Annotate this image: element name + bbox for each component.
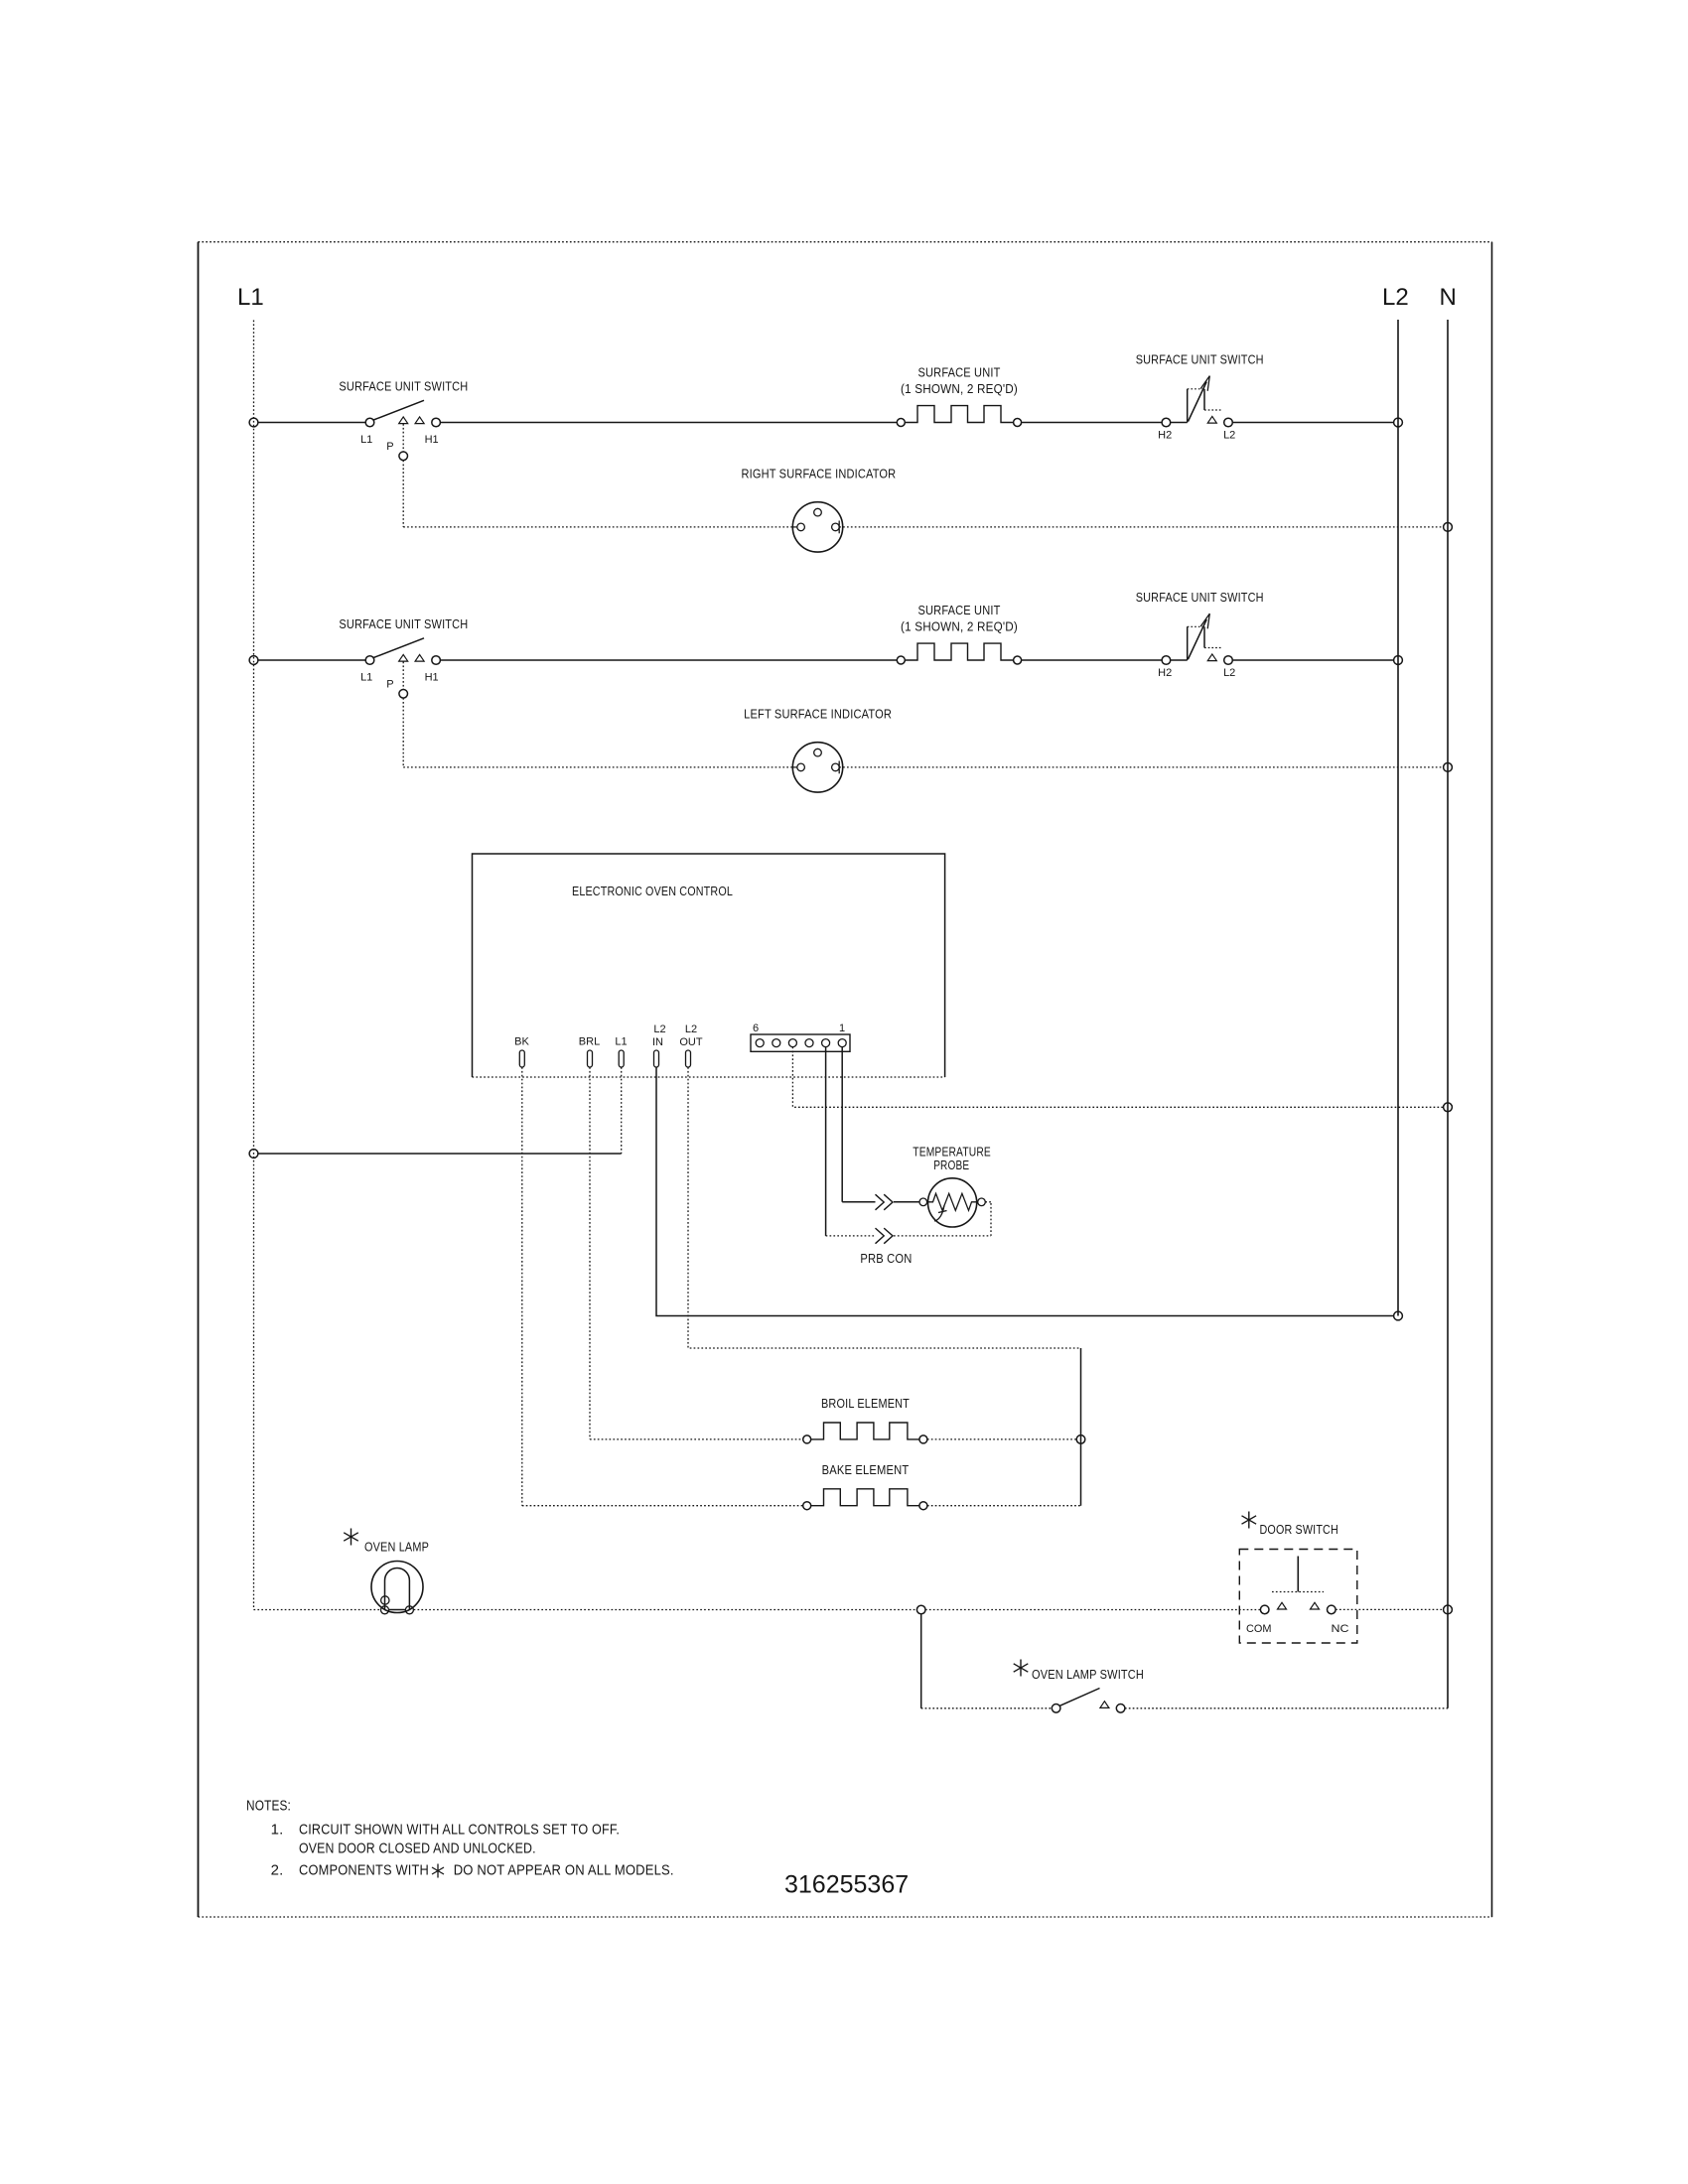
svg-text:6: 6 — [753, 1023, 759, 1034]
asterisk door switch — [1242, 1512, 1257, 1529]
wire lamp switch drop — [920, 1614, 922, 1708]
svg-text:BRL: BRL — [579, 1036, 600, 1048]
svg-text:OVEN LAMP: OVEN LAMP — [364, 1540, 429, 1555]
node L1-row2 terminal — [249, 656, 258, 665]
wire row1 switch-to-resistor — [440, 422, 897, 424]
connector chevron lower — [876, 1228, 894, 1244]
switch S1 door switch — [1239, 1550, 1357, 1644]
wire pilot P row1 — [403, 424, 792, 527]
svg-text:CIRCUIT SHOWN WITH ALL CONTROL: CIRCUIT SHOWN WITH ALL CONTROLS SET TO O… — [299, 1822, 620, 1839]
svg-text:316255367: 316255367 — [784, 1871, 909, 1899]
thermistor RT1 temperature probe — [919, 1178, 985, 1227]
node N-door terminal — [1444, 1605, 1453, 1614]
wire pin2 down — [825, 1047, 827, 1236]
node L1-row1 terminal — [249, 418, 258, 427]
svg-text:IN: IN — [652, 1036, 663, 1048]
svg-text:NC: NC — [1332, 1623, 1349, 1635]
wire lamp switch to N — [1125, 1707, 1448, 1709]
node L2-in terminal — [1394, 1311, 1403, 1320]
svg-text:L1: L1 — [360, 672, 372, 684]
wire row1 L1-to-switch — [258, 422, 365, 424]
node L1-EOC terminal — [249, 1150, 258, 1159]
svg-text:L2: L2 — [685, 1024, 697, 1035]
switch S2 oven lamp switch — [1052, 1689, 1125, 1713]
wire row2 L1-to-switch — [258, 659, 365, 661]
node L2-row1 terminal — [1394, 418, 1403, 427]
lamp DS1 oven lamp — [371, 1562, 423, 1614]
asterisk note2 — [432, 1864, 444, 1878]
svg-text:BK: BK — [514, 1036, 529, 1048]
node lamp row junction — [916, 1605, 925, 1614]
svg-text:NOTES:: NOTES: — [246, 1798, 291, 1815]
svg-text:L2: L2 — [1382, 284, 1409, 311]
pin BRL terminal — [588, 1050, 593, 1067]
node N-ind2 terminal — [1444, 763, 1453, 772]
wire L2 OUT down — [688, 1067, 1081, 1348]
pin L1 terminal — [619, 1050, 624, 1067]
svg-text:L2: L2 — [1223, 429, 1235, 441]
svg-text:P: P — [386, 679, 393, 691]
svg-text:SURFACE UNIT SWITCH: SURFACE UNIT SWITCH — [1136, 351, 1264, 366]
wire element common vertical — [1080, 1348, 1082, 1506]
svg-text:2.: 2. — [271, 1862, 284, 1879]
wire BK pin down — [521, 1067, 523, 1506]
svg-text:SURFACE UNIT: SURFACE UNIT — [918, 603, 1001, 617]
switch SW3 surface unit switch row2 — [365, 638, 440, 665]
svg-text:COMPONENTS WITH: COMPONENTS WITH — [299, 1862, 429, 1879]
wire row2 resistor-to-switch2 — [1022, 659, 1163, 661]
svg-text:SURFACE UNIT SWITCH: SURFACE UNIT SWITCH — [339, 616, 468, 631]
svg-text:PRB CON: PRB CON — [860, 1251, 912, 1266]
IC U1 electronic oven control box — [473, 854, 945, 1077]
svg-text:BAKE ELEMENT: BAKE ELEMENT — [822, 1462, 910, 1477]
wire L2 IN to L2 rail — [656, 1067, 1394, 1316]
connector P1 probe connector — [751, 1034, 850, 1051]
svg-text:N: N — [1440, 284, 1457, 311]
asterisk oven lamp — [344, 1529, 358, 1546]
net N rail — [1447, 320, 1449, 1708]
wire pin1 down to probe — [842, 1047, 919, 1202]
wire broil to junction — [927, 1438, 1076, 1440]
svg-text:DO NOT APPEAR ON ALL MODELS.: DO NOT APPEAR ON ALL MODELS. — [454, 1862, 674, 1879]
node broil junction — [1076, 1435, 1085, 1444]
svg-text:(1 SHOWN, 2 REQ'D): (1 SHOWN, 2 REQ'D) — [901, 619, 1018, 634]
border frame right — [1491, 242, 1493, 1917]
resistor bake element — [803, 1489, 927, 1510]
resistor broil element — [803, 1423, 927, 1443]
wire row2 switch2-to-L2 — [1232, 659, 1393, 661]
wire lamp row from L1 rail — [254, 1609, 1261, 1611]
switch SW4 surface unit switch right row2 — [1162, 614, 1232, 664]
switch SW2 surface unit switch right row1 — [1162, 376, 1232, 427]
svg-text:ELECTRONIC OVEN CONTROL: ELECTRONIC OVEN CONTROL — [572, 884, 733, 898]
resistor surface unit row1 — [897, 406, 1021, 427]
svg-text:RIGHT SURFACE INDICATOR: RIGHT SURFACE INDICATOR — [742, 467, 897, 481]
svg-text:OVEN DOOR CLOSED AND UNLOCKED.: OVEN DOOR CLOSED AND UNLOCKED. — [299, 1841, 536, 1857]
node pilot contact row1 — [399, 452, 408, 461]
IC U1 box bottom edge — [473, 1076, 945, 1078]
net L1 rail — [253, 321, 255, 1610]
wire BRL to broil element — [590, 1438, 803, 1440]
svg-text:OUT: OUT — [679, 1036, 703, 1048]
svg-text:(1 SHOWN, 2 REQ'D): (1 SHOWN, 2 REQ'D) — [901, 381, 1018, 396]
wire row2 switch-to-resistor — [440, 659, 897, 661]
wire door switch to N — [1336, 1608, 1444, 1610]
node pilot contact row2 — [399, 690, 408, 699]
svg-text:L2: L2 — [653, 1024, 665, 1035]
svg-text:L1: L1 — [360, 434, 372, 446]
svg-text:H1: H1 — [425, 434, 439, 446]
wire row1 switch2-to-L2 — [1232, 422, 1393, 424]
svg-text:OVEN LAMP SWITCH: OVEN LAMP SWITCH — [1032, 1667, 1144, 1682]
svg-text:L1: L1 — [237, 284, 264, 311]
svg-text:L2: L2 — [1223, 667, 1235, 679]
wire BK to bake element — [522, 1505, 803, 1507]
wire lamp switch row left — [921, 1707, 1053, 1709]
svg-text:DOOR SWITCH: DOOR SWITCH — [1260, 1522, 1338, 1537]
svg-text:1: 1 — [839, 1023, 845, 1034]
node N-ind1 terminal — [1444, 523, 1453, 532]
svg-text:H2: H2 — [1158, 667, 1172, 679]
svg-text:BROIL ELEMENT: BROIL ELEMENT — [821, 1396, 910, 1411]
svg-text:L1: L1 — [615, 1036, 627, 1048]
lamp right surface indicator — [792, 502, 842, 552]
wire pin4 to N rail — [792, 1047, 1443, 1108]
svg-text:H1: H1 — [425, 672, 439, 684]
connector chevron upper — [876, 1194, 894, 1210]
border frame left — [198, 242, 200, 1917]
node N-pin4 terminal — [1444, 1103, 1453, 1112]
switch SW1 surface unit switch row1 — [365, 400, 440, 427]
svg-text:P: P — [386, 441, 393, 453]
wire lamp internal — [389, 1609, 406, 1611]
svg-text:PROBE: PROBE — [933, 1158, 969, 1172]
pin L2 OUT terminal — [686, 1050, 691, 1067]
wire pin2 to probe return — [826, 1202, 991, 1236]
wire indicator2-to-N — [839, 766, 1443, 768]
svg-text:SURFACE UNIT SWITCH: SURFACE UNIT SWITCH — [339, 379, 468, 394]
wire bake to common — [927, 1505, 1081, 1507]
asterisk oven lamp switch — [1014, 1660, 1029, 1677]
wire L1 pin to L1 rail — [258, 1067, 622, 1154]
net L2 rail — [1397, 320, 1399, 1316]
svg-text:H2: H2 — [1158, 429, 1172, 441]
svg-text:SURFACE UNIT SWITCH: SURFACE UNIT SWITCH — [1136, 590, 1264, 605]
resistor surface unit row2 — [897, 643, 1021, 664]
border frame bottom — [199, 1916, 1492, 1918]
wire pilot P row2 — [403, 662, 792, 767]
wire BRL pin down — [589, 1067, 591, 1439]
lamp left surface indicator — [792, 743, 842, 792]
pin L2 IN terminal — [654, 1050, 659, 1067]
node L2-row2 terminal — [1394, 656, 1403, 665]
wire indicator1-to-N — [839, 526, 1443, 528]
svg-text:SURFACE UNIT: SURFACE UNIT — [918, 365, 1001, 380]
pin BK terminal — [519, 1050, 524, 1067]
svg-text:LEFT SURFACE INDICATOR: LEFT SURFACE INDICATOR — [744, 706, 892, 721]
border frame top — [199, 241, 1492, 243]
svg-text:COM: COM — [1246, 1623, 1272, 1635]
svg-text:1.: 1. — [271, 1822, 284, 1839]
wire row1 resistor-to-switch2 — [1022, 422, 1163, 424]
